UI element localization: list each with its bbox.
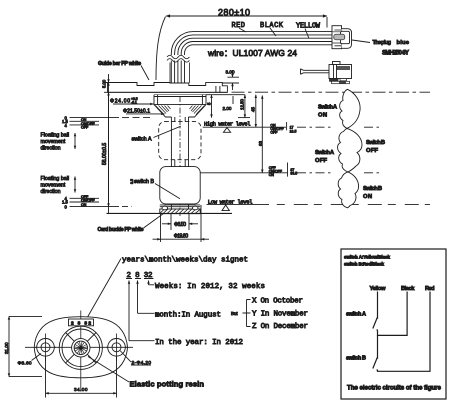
svg-text:Red: Red: [425, 286, 435, 292]
svg-text:ON/OFF: ON/OFF: [81, 199, 95, 203]
water wave (torn edge): [338, 89, 362, 208]
svg-text:Guide bar PP white: Guide bar PP white: [98, 61, 141, 67]
svg-text:In the year: In 2012: In the year: In 2012: [155, 339, 243, 347]
switch A travel lines (left top 0/1.5/4): [62, 115, 152, 129]
svg-text:Floating ball: Floating ball: [41, 176, 70, 182]
switch B label: [130, 179, 180, 199]
svg-text:Switch A: Switch A: [315, 150, 335, 156]
svg-text:38.5: 38.5: [290, 172, 297, 176]
svg-text:switch B:Red/Black: switch B:Red/Black: [344, 262, 384, 267]
leader year: [129, 281, 243, 348]
svg-text:Z On December: Z On December: [252, 323, 308, 331]
dimension 3.00 (boss height): [222, 70, 239, 91]
svg-text:Black: Black: [401, 286, 415, 292]
circuit box header labels: [344, 255, 390, 267]
svg-text:movement: movement: [41, 139, 66, 145]
svg-text:blue: blue: [397, 40, 410, 46]
month bracket: [243, 298, 309, 332]
svg-text:Floating ball: Floating ball: [41, 133, 70, 139]
switch A OFF state label: [315, 150, 335, 164]
float switch A (dashed): [159, 122, 201, 160]
flange outline (bottom view): [34, 317, 127, 378]
svg-text:5: 5: [207, 102, 212, 105]
svg-text:direction: direction: [41, 189, 61, 195]
floating ball movement label (upper): [41, 133, 76, 152]
wire bundle (5 wires): [170, 32, 332, 83]
label Φ8.60: [18, 354, 42, 367]
wire yellow to junction: [378, 292, 408, 336]
svg-text:switch B: switch B: [346, 356, 366, 362]
svg-text:45: 45: [251, 107, 256, 112]
svg-text:Y In November: Y In November: [252, 311, 308, 319]
wire color label BLACK: [260, 22, 284, 36]
svg-text:Φ8.60: Φ8.60: [18, 360, 32, 366]
guide bar label: [98, 61, 149, 80]
svg-text:3.00: 3.00: [226, 70, 235, 75]
upper body block: [154, 95, 206, 105]
svg-text:OFF: OFF: [270, 130, 277, 134]
circuit caption: [347, 385, 442, 392]
dimension Φ24.00±0.5: [110, 97, 154, 105]
svg-text:Φ21.50±0.1: Φ21.50±0.1: [123, 108, 150, 114]
signet digits 2 8 32: [126, 272, 154, 280]
svg-text:2 8 32: 2 8 32: [71, 321, 91, 327]
svg-text:280±10: 280±10: [218, 8, 250, 18]
flange cross lines: [66, 333, 97, 364]
wire yellow lead: [377, 292, 379, 318]
plate underside lines: [108, 92, 245, 94]
flange ear right: [106, 334, 127, 362]
switch A off level line: [200, 163, 381, 178]
svg-text:switch A:Yellow/Black: switch A:Yellow/Black: [344, 255, 390, 260]
dimension 58.00±0.5 (left tall): [102, 83, 109, 207]
card buckle label: [98, 214, 164, 234]
signet title: [87, 257, 248, 319]
svg-text:Card buckle PP white: Card buckle PP white: [98, 227, 144, 233]
svg-text:0: 0: [65, 204, 68, 209]
svg-text:OFF: OFF: [315, 158, 327, 164]
low water level line: [207, 198, 431, 210]
dimension Φ19.80: [153, 205, 210, 242]
switch A symbol: [346, 312, 378, 331]
svg-text:X On October: X On October: [252, 298, 303, 306]
plug label leader: [352, 40, 410, 57]
signet box on flange: [69, 319, 94, 327]
svg-text:High water level: High water level: [204, 121, 251, 128]
floating ball movement label (lower): [41, 176, 76, 195]
svg-text:34.00: 34.00: [74, 387, 88, 393]
svg-text:Elastic potting resin: Elastic potting resin: [130, 380, 205, 389]
flange ear left: [35, 334, 56, 362]
dimension 31.00: [4, 316, 42, 376]
svg-text:switch A: switch A: [132, 137, 152, 143]
switch B ON state label: [363, 186, 382, 200]
side connector (plug side view): [301, 62, 352, 84]
high water level line: [203, 121, 381, 135]
dimension 34.00: [46, 356, 117, 398]
wire color label YELLOW: [296, 23, 321, 39]
svg-text:SMH250-3Y: SMH250-3Y: [382, 51, 409, 57]
wire spec label: [207, 48, 297, 58]
svg-text:12.50: 12.50: [240, 98, 245, 110]
svg-text:BLACK: BLACK: [260, 22, 284, 30]
flange centerlines: [25, 311, 133, 392]
mounting plate (cross section): [108, 82, 228, 92]
flange center hub: [72, 339, 90, 357]
node Black: [401, 286, 415, 292]
switch B symbol: [346, 356, 378, 371]
svg-text:wire：UL1007 AWG 24: wire：UL1007 AWG 24: [207, 48, 297, 58]
switch A ON state label: [318, 105, 338, 119]
svg-text:The electric circuits of the f: The electric circuits of the figure: [347, 385, 442, 392]
dimension Φ8.50: [162, 214, 198, 230]
svg-text:Φ19.80: Φ19.80: [174, 233, 189, 239]
wire break mark: [167, 55, 190, 62]
dimension 280±10: [156, 8, 327, 81]
dimension ref tick (right of plate): [238, 117, 250, 119]
wire junction down: [377, 335, 379, 357]
wire color label RED: [232, 22, 247, 32]
label 2-Φ4.20: [120, 351, 151, 366]
dimension 12.50: [240, 95, 245, 118]
dimension 63 (to switch A off level): [258, 96, 263, 173]
card buckle: [160, 205, 200, 214]
switch B OFF state label: [366, 140, 385, 154]
svg-text:month:In August: month:In August: [155, 312, 221, 320]
svg-text:Φ8.50: Φ8.50: [174, 222, 186, 228]
circuit box frame: [341, 249, 446, 399]
svg-text:58.00±0.5: 58.00±0.5: [102, 143, 108, 165]
node Red: [425, 286, 435, 292]
svg-text:5.00: 5.00: [102, 79, 107, 88]
svg-text:ON: ON: [318, 113, 327, 119]
label elastic potting resin: [88, 357, 204, 389]
svg-text:Yellow: Yellow: [370, 286, 386, 292]
plug (connector front view): [332, 26, 352, 49]
svg-text:3.5: 3.5: [130, 179, 134, 184]
svg-text:movement: movement: [41, 183, 66, 189]
stem tube: [171, 96, 188, 216]
svg-text:But: But: [231, 311, 238, 316]
bottom reference line: [107, 212, 233, 214]
switch B travel lines (left bottom 4/1.5/0): [62, 195, 132, 210]
switch A label: [132, 126, 181, 142]
top center line: [232, 91, 431, 93]
svg-text:OFF: OFF: [81, 126, 89, 130]
node Yellow: [370, 286, 386, 292]
svg-text:ON: ON: [81, 203, 87, 207]
dimension Φ21.50±0.1: [123, 108, 165, 114]
float switch B (solid): [160, 167, 200, 204]
svg-text:switch A: switch A: [346, 312, 366, 318]
flange big circles: [59, 326, 102, 369]
svg-text:2.00: 2.00: [223, 106, 232, 111]
svg-text:OFF: OFF: [366, 148, 378, 154]
svg-text:Switch A: Switch A: [318, 105, 338, 111]
svg-text:The plug: The plug: [373, 40, 392, 46]
wire red branch: [378, 292, 431, 372]
funnel with hatching: [154, 105, 206, 117]
svg-text:direction: direction: [41, 146, 61, 152]
svg-text:31.00: 31.00: [4, 342, 9, 354]
svg-text:18.5: 18.5: [290, 129, 297, 133]
svg-text:ON: ON: [269, 173, 275, 177]
svg-text:RED: RED: [232, 22, 246, 30]
svg-text:YELLOW: YELLOW: [296, 23, 321, 31]
svg-text:ON: ON: [363, 194, 372, 200]
svg-text:63: 63: [258, 141, 263, 146]
svg-text:Switch B: Switch B: [366, 140, 385, 146]
svg-text:switch B: switch B: [134, 179, 154, 185]
svg-text:years\month\weeks\day signet: years\month\weeks\day signet: [122, 257, 248, 265]
svg-text:Weeks: In 2012, 32 weeks: Weeks: In 2012, 32 weeks: [155, 283, 265, 291]
leader month: [138, 281, 239, 320]
dimension 45 (small, mid): [207, 95, 234, 118]
dimension 45 (to high water): [251, 95, 256, 128]
svg-text:Switch B: Switch B: [363, 186, 382, 192]
dimension 5.00 (plate thickness, left): [102, 74, 109, 213]
leader weeks: [149, 281, 266, 292]
